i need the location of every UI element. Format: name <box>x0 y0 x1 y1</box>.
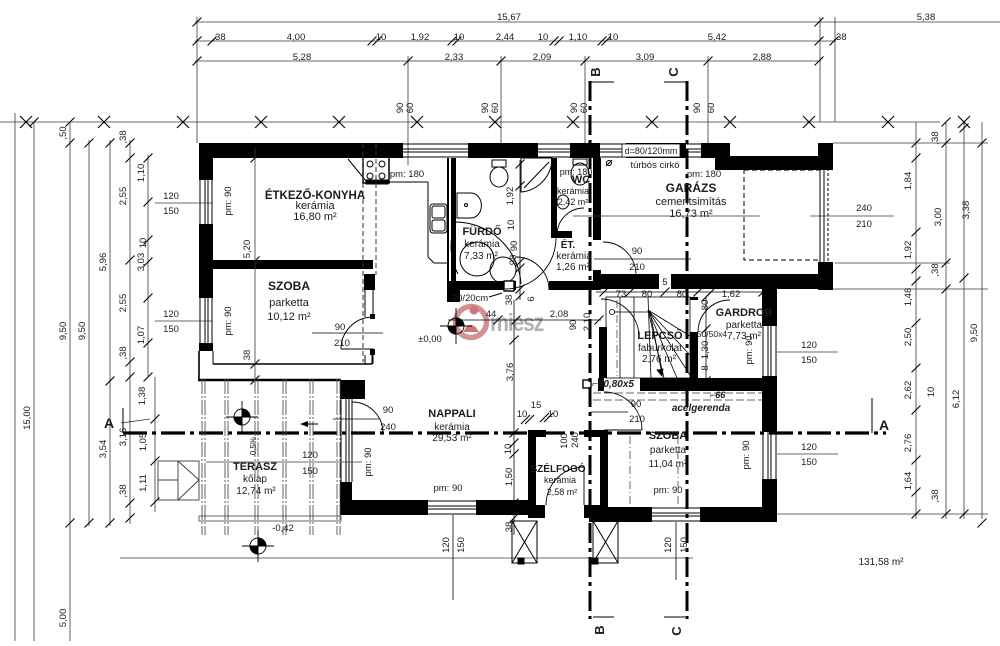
svg-text:3,03: 3,03 <box>136 253 147 272</box>
svg-text:150: 150 <box>163 206 179 217</box>
svg-text:120: 120 <box>163 191 179 202</box>
svg-text:9,50: 9,50 <box>969 324 980 343</box>
svg-text:kerámia: kerámia <box>557 186 589 196</box>
svg-text:,38: ,38 <box>930 489 941 502</box>
svg-text:,38: ,38 <box>118 130 129 143</box>
svg-text:3,38: 3,38 <box>961 201 972 220</box>
svg-text:parketta: parketta <box>269 297 310 309</box>
svg-text:29,53 m²: 29,53 m² <box>432 433 472 444</box>
svg-text:1,84: 1,84 <box>903 172 914 191</box>
svg-text:3,00: 3,00 <box>933 208 944 227</box>
svg-text:2,58 m²: 2,58 m² <box>547 487 578 497</box>
svg-text:kerámia: kerámia <box>434 422 470 433</box>
svg-text:5,20: 5,20 <box>242 240 253 259</box>
svg-text:B: B <box>588 67 603 76</box>
svg-text:1,92: 1,92 <box>505 187 516 206</box>
svg-text:120: 120 <box>663 537 674 553</box>
svg-text:120: 120 <box>801 442 817 453</box>
svg-text:150: 150 <box>801 355 817 366</box>
svg-text:9,50: 9,50 <box>58 322 69 341</box>
svg-text:pm: 90: pm: 90 <box>223 306 234 335</box>
svg-text:1,07: 1,07 <box>136 326 147 345</box>
svg-text:ÉT.: ÉT. <box>561 238 576 251</box>
svg-text:5,38: 5,38 <box>917 12 936 23</box>
svg-text:9,50: 9,50 <box>77 322 88 341</box>
svg-text:2,09: 2,09 <box>533 52 552 63</box>
svg-text:1,11: 1,11 <box>138 474 149 492</box>
svg-text:10: 10 <box>548 409 559 420</box>
svg-text:pm: 180: pm: 180 <box>687 169 721 180</box>
svg-text:5,28: 5,28 <box>293 52 312 63</box>
svg-text:1,30: 1,30 <box>700 341 711 360</box>
svg-text:10: 10 <box>517 409 528 420</box>
svg-text:240: 240 <box>856 203 872 214</box>
svg-text:8: 8 <box>700 365 711 370</box>
svg-text:3,54: 3,54 <box>98 440 109 459</box>
svg-text:GARÁZS: GARÁZS <box>666 180 717 195</box>
svg-text:1,10: 1,10 <box>569 32 588 43</box>
svg-text:5: 5 <box>662 277 667 288</box>
svg-text:GARDROB: GARDROB <box>716 307 773 319</box>
svg-text:150: 150 <box>456 537 467 553</box>
svg-text:NAPPALI: NAPPALI <box>428 408 475 420</box>
svg-text:38: 38 <box>242 350 253 361</box>
svg-text:,38: ,38 <box>930 263 941 276</box>
svg-text:6: 6 <box>526 296 537 301</box>
svg-text:pm: 90: pm: 90 <box>744 335 755 364</box>
svg-text:2,44: 2,44 <box>496 32 515 43</box>
svg-text:cementsimítás: cementsimítás <box>656 196 727 208</box>
svg-text:acélgerenda: acélgerenda <box>672 403 731 414</box>
svg-text:⌐66: ⌐66 <box>710 390 726 400</box>
svg-text:20/20cm: 20/20cm <box>452 293 489 304</box>
svg-text:12,74 m²: 12,74 m² <box>236 486 276 497</box>
svg-text:C: C <box>666 67 681 77</box>
svg-text:131,58 m²: 131,58 m² <box>858 557 904 568</box>
svg-text:C: C <box>669 626 684 636</box>
svg-text:1,05: 1,05 <box>138 433 149 452</box>
svg-text:,38: ,38 <box>212 32 225 43</box>
svg-text:15,00: 15,00 <box>22 406 33 430</box>
svg-text:parketta: parketta <box>650 445 687 456</box>
svg-text:2,42 m²: 2,42 m² <box>558 197 589 207</box>
svg-text:38: 38 <box>504 295 515 306</box>
svg-text:A: A <box>879 417 889 433</box>
svg-text:6,12: 6,12 <box>951 390 962 409</box>
svg-text:10: 10 <box>926 387 937 398</box>
svg-text:2,33: 2,33 <box>445 52 464 63</box>
svg-text:60: 60 <box>706 103 717 114</box>
svg-text:pm: 90: pm: 90 <box>741 440 752 469</box>
svg-text:d=80/120mm: d=80/120mm <box>625 146 678 156</box>
svg-text:-50/50x4: -50/50x4 <box>694 329 727 339</box>
svg-text:60: 60 <box>405 103 416 114</box>
svg-text:kerámia: kerámia <box>556 251 592 262</box>
svg-text:2,55: 2,55 <box>118 294 129 313</box>
svg-text:3,16: 3,16 <box>118 428 129 447</box>
svg-text:,38: ,38 <box>930 131 941 144</box>
svg-text:A: A <box>104 415 114 431</box>
svg-text:B: B <box>592 625 607 634</box>
svg-text:2,10: 2,10 <box>582 313 593 332</box>
svg-text:150: 150 <box>163 324 179 335</box>
svg-text:90: 90 <box>509 241 520 252</box>
svg-text:210: 210 <box>629 414 645 425</box>
svg-text:73: 73 <box>616 289 627 300</box>
svg-text:±0,00: ±0,00 <box>418 334 442 345</box>
svg-text:120: 120 <box>441 537 452 553</box>
svg-text:2,88: 2,88 <box>753 52 772 63</box>
svg-text:15: 15 <box>531 400 542 411</box>
svg-text:10: 10 <box>138 238 149 249</box>
svg-text:⌐80,80x5: ⌐80,80x5 <box>592 379 634 390</box>
svg-text:10: 10 <box>506 220 517 231</box>
svg-text:,38: ,38 <box>118 346 129 359</box>
svg-text:10,12 m²: 10,12 m² <box>267 311 311 323</box>
svg-text:,38: ,38 <box>118 484 129 497</box>
svg-text:2,50: 2,50 <box>903 328 914 347</box>
svg-text:SZOBA: SZOBA <box>268 279 310 293</box>
svg-text:1,64: 1,64 <box>903 472 914 491</box>
svg-text:0,5%: 0,5% <box>249 437 258 455</box>
svg-text:210: 210 <box>629 262 645 273</box>
svg-text:pm: 90: pm: 90 <box>433 483 462 494</box>
svg-text:90: 90 <box>383 405 394 416</box>
svg-text:60: 60 <box>490 103 501 114</box>
svg-text:1,38: 1,38 <box>137 387 148 406</box>
svg-text:1,26 m²: 1,26 m² <box>556 262 591 273</box>
svg-text:5,42: 5,42 <box>708 32 727 43</box>
svg-text:44: 44 <box>486 309 497 320</box>
svg-text:2,62: 2,62 <box>903 381 914 400</box>
svg-text:pm: 90: pm: 90 <box>363 447 374 476</box>
svg-text:100: 100 <box>559 433 570 449</box>
svg-text:80: 80 <box>677 289 688 300</box>
svg-text:1,50: 1,50 <box>504 468 515 487</box>
svg-text:11,04 m²: 11,04 m² <box>649 459 688 470</box>
svg-text:150: 150 <box>801 457 817 468</box>
svg-text:,38: ,38 <box>833 32 846 43</box>
svg-text:16,73 m²: 16,73 m² <box>669 208 713 220</box>
svg-text:kerámia: kerámia <box>544 475 576 485</box>
svg-text:túrbós cirkó: túrbós cirkó <box>630 160 679 171</box>
svg-text:5,00: 5,00 <box>58 609 69 628</box>
svg-text:4,00: 4,00 <box>287 32 306 43</box>
svg-text:parketta: parketta <box>726 320 763 331</box>
svg-text:1,48: 1,48 <box>903 288 914 307</box>
svg-text:1,92: 1,92 <box>411 32 430 43</box>
svg-text:60: 60 <box>579 103 590 114</box>
svg-text:kerámia: kerámia <box>464 239 500 250</box>
svg-text:1,10: 1,10 <box>136 164 147 183</box>
svg-text:SZOBA: SZOBA <box>649 430 688 442</box>
svg-text:1,62: 1,62 <box>722 289 741 300</box>
svg-text:90: 90 <box>568 320 579 331</box>
svg-text:pm: 90: pm: 90 <box>223 186 234 215</box>
svg-text:15,67: 15,67 <box>497 12 521 23</box>
svg-text:5,96: 5,96 <box>98 253 109 272</box>
svg-text:16,80 m²: 16,80 m² <box>293 211 337 223</box>
svg-text:3,09: 3,09 <box>636 52 655 63</box>
svg-text:120: 120 <box>801 340 817 351</box>
svg-text:2,55: 2,55 <box>118 187 129 206</box>
svg-text:1,92: 1,92 <box>903 241 914 260</box>
svg-text:90: 90 <box>335 322 346 333</box>
svg-text:,50: ,50 <box>58 126 69 139</box>
svg-text:120: 120 <box>163 309 179 320</box>
svg-text:2,08: 2,08 <box>550 309 569 320</box>
svg-text:miesz: miesz <box>490 309 544 337</box>
svg-text:SZÉLFOGÓ: SZÉLFOGÓ <box>531 462 586 475</box>
svg-text:210: 210 <box>856 219 872 230</box>
svg-text:2,76: 2,76 <box>903 434 914 453</box>
svg-text:150: 150 <box>679 537 690 553</box>
svg-text:90: 90 <box>692 103 703 114</box>
svg-text:80: 80 <box>642 289 653 300</box>
svg-text:240: 240 <box>570 432 581 448</box>
svg-text:pm: 180: pm: 180 <box>390 169 424 180</box>
svg-text:90: 90 <box>632 246 643 257</box>
svg-text:10: 10 <box>538 32 549 43</box>
